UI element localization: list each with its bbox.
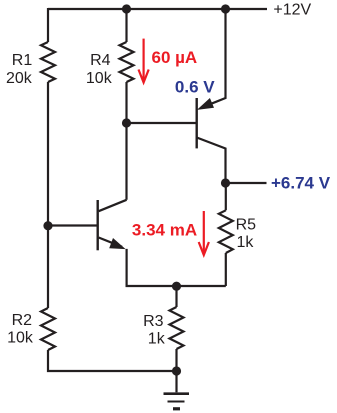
svg-text:R5: R5 (236, 217, 257, 234)
svg-text:R2: R2 (12, 312, 33, 329)
svg-text:10k: 10k (86, 70, 113, 87)
svg-text:20k: 20k (6, 70, 33, 87)
svg-text:R4: R4 (90, 52, 111, 69)
svg-text:3.34 mA: 3.34 mA (132, 220, 197, 239)
svg-text:10k: 10k (7, 329, 34, 346)
svg-text:60 µA: 60 µA (152, 48, 198, 67)
svg-text:+12V: +12V (273, 2, 311, 19)
svg-text:+6.74 V: +6.74 V (271, 173, 331, 192)
svg-text:R1: R1 (12, 52, 33, 69)
svg-text:0.6 V: 0.6 V (175, 77, 215, 96)
svg-text:R3: R3 (143, 313, 164, 330)
svg-text:1k: 1k (237, 234, 255, 251)
svg-text:1k: 1k (148, 331, 166, 348)
